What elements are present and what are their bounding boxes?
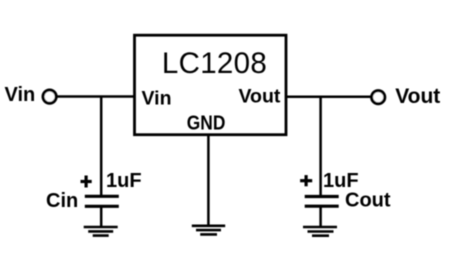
node Vout terminal circle: [372, 91, 385, 104]
wire U1 Vout pin to Vout terminal: [287, 96, 371, 99]
svg-text:Vout: Vout: [239, 86, 281, 108]
ground symbol (middle, for U1 GND): [192, 226, 225, 235]
svg-text:Cout: Cout: [345, 189, 391, 211]
svg-text:Vout: Vout: [395, 85, 440, 108]
wire U1 GND pin down to ground: [207, 136, 210, 226]
regulator U1 LC1208 body: [135, 35, 287, 135]
svg-text:1uF: 1uF: [106, 170, 142, 192]
wire junction branch down to C_out: [319, 97, 322, 196]
wire Cout bottom plate to ground: [319, 206, 322, 227]
capacitor Cout plates: [305, 197, 339, 207]
svg-text:Vin: Vin: [142, 88, 172, 110]
capacitor Cin plates: [85, 196, 119, 206]
node Vin terminal circle: [43, 90, 56, 103]
svg-text:Cin: Cin: [46, 190, 78, 212]
ground symbol (right, for Cout): [303, 227, 337, 236]
svg-text:Vin: Vin: [5, 84, 36, 106]
ground symbol (left, for Cin): [84, 227, 118, 236]
wire Cin bottom plate to ground: [100, 206, 103, 227]
polarity mark + of Cin: [81, 176, 92, 188]
svg-text:LC1208: LC1208: [162, 47, 267, 80]
svg-text:GND: GND: [187, 113, 226, 135]
wire Vin terminal to U1 Vin pin: [57, 95, 135, 98]
polarity mark + of Cout: [300, 175, 312, 186]
wire junction branch down to C_in: [100, 97, 103, 197]
